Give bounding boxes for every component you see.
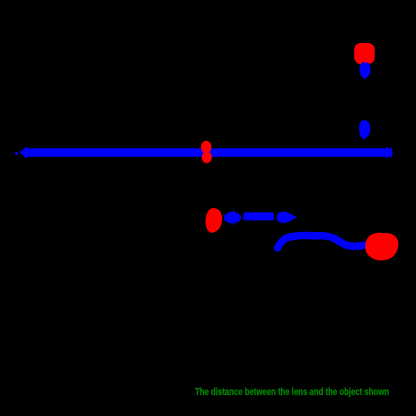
right arrowhead of axis <box>386 146 394 158</box>
principal axis shaft (blue horizontal line) <box>24 148 392 157</box>
optical center mark: red figure-8 dot on axis <box>201 141 212 163</box>
red egg blob, mid left of annotation <box>205 208 222 233</box>
blue handwritten annotation: last word with right arrow <box>277 212 298 224</box>
green caption text at bottom <box>195 386 389 398</box>
red splat blob, right end of squiggle <box>365 233 398 261</box>
left arrowhead of axis <box>15 146 27 159</box>
blue handwritten annotation: middle bar word <box>244 212 275 220</box>
blue mark above axis (lower blue arrow) <box>359 120 370 140</box>
svg-text:The distance between the lens: The distance between the lens and the ob… <box>195 386 389 398</box>
blue squiggle connector to red splat <box>278 235 367 248</box>
blue mark below red object (upper blue arrow) <box>359 62 370 79</box>
red rounded blob, top right (object) <box>354 43 375 64</box>
blue handwritten annotation: first scribble word <box>224 209 241 226</box>
